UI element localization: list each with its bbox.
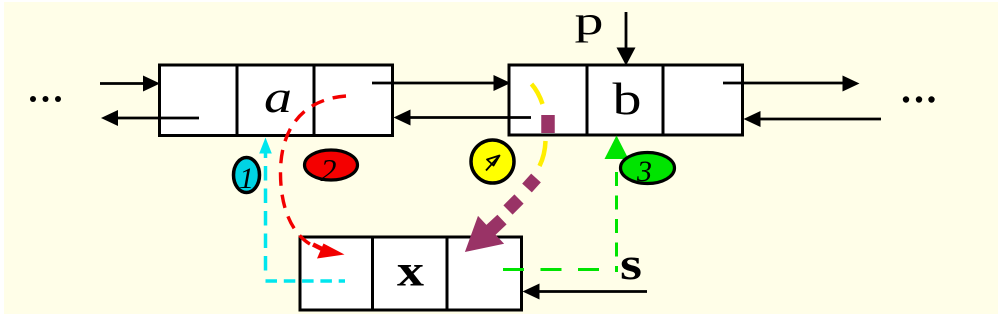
node a box: [160, 65, 393, 136]
wire: s arrow into node x: [523, 284, 648, 300]
step circle 4: [471, 140, 514, 183]
svg-text:a: a: [264, 71, 292, 122]
label p: [575, 0, 604, 43]
svg-text:1: 1: [239, 162, 254, 195]
svg-text:2: 2: [321, 152, 337, 188]
wire: next arrow from node a to node b: [372, 75, 511, 91]
step4 purple thick dashed pointer from node b prior to node x: [465, 115, 548, 252]
wire: prior arrow out of node a to left: [101, 110, 199, 126]
right ellipsis dots: [903, 96, 935, 102]
step oval 2: [305, 150, 358, 188]
label s: [620, 238, 642, 289]
step3 green dashed pointer from node x next to node b: [503, 136, 629, 273]
wire: incoming next arrow into node a: [100, 76, 160, 92]
svg-text:b: b: [613, 74, 642, 124]
node b box: [509, 65, 743, 135]
svg-text:3: 3: [636, 155, 652, 188]
old pointer yellow dashed arc near node b: [532, 84, 546, 166]
left ellipsis dots: [30, 96, 61, 102]
svg-text:s: s: [620, 238, 642, 289]
wire: next arrow out of node b to right: [723, 76, 860, 92]
label x: [397, 247, 424, 296]
svg-text:x: x: [397, 247, 424, 296]
wire: prior arrow from node b to node a: [394, 110, 532, 126]
wire: pointer p down arrow into node b: [617, 12, 636, 66]
svg-text:p: p: [575, 0, 604, 43]
step2 red dashed pointer from node a next to node x: [280, 96, 346, 259]
step oval 3: [621, 153, 675, 189]
node x box: [300, 237, 522, 310]
step1 cyan dashed pointer from node x prior to node a: [259, 138, 345, 282]
label a: [264, 71, 292, 122]
step oval 1: [234, 158, 260, 196]
label b: [613, 74, 642, 124]
wire: incoming prior arrow into node b from right: [744, 111, 882, 127]
